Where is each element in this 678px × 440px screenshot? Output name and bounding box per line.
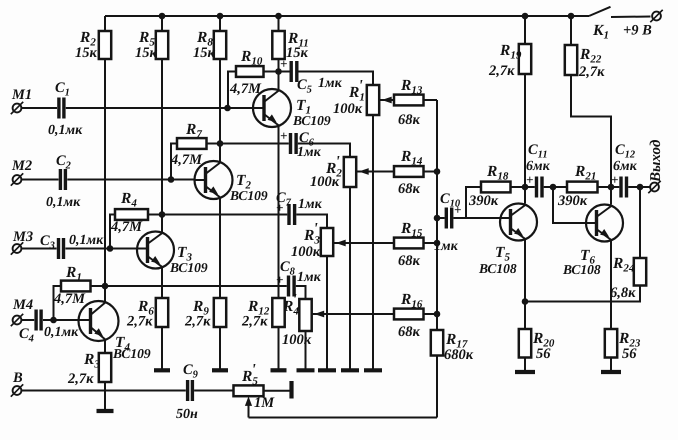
wire T3 collector to C7: [162, 214, 287, 216]
svg-text:68к: 68к: [398, 253, 421, 269]
wire T2 collector to C6: [220, 143, 289, 145]
label +9 В: [623, 23, 652, 39]
capacitor C12: [611, 172, 627, 198]
label R18 390к: [468, 163, 509, 209]
svg-text:68к: 68к: [398, 112, 421, 128]
node bus-C10: [434, 215, 441, 222]
label C10: [434, 191, 461, 254]
label C11: [526, 142, 551, 174]
capacitor C6: [280, 128, 296, 154]
node rail-R5: [159, 13, 166, 20]
label R5 15к: [135, 29, 158, 61]
label C1 value: [48, 123, 83, 138]
ground R12: [271, 368, 287, 372]
svg-text:68к: 68к: [398, 181, 421, 197]
resistor R7: [171, 138, 220, 179]
wire C1 to T1 base: [66, 107, 254, 109]
label R2 15к: [75, 29, 98, 61]
wire C6 to R2': [298, 144, 350, 158]
label R14 68к: [398, 148, 423, 197]
label R8 15к: [193, 29, 216, 61]
svg-text:+: +: [526, 172, 533, 187]
terminal +9V: [650, 10, 662, 22]
node T3 collector: [159, 211, 166, 218]
svg-text:100к: 100к: [291, 244, 321, 260]
label R11 15к: [286, 30, 309, 61]
wire to T6 base: [553, 187, 587, 223]
resistor R21: [567, 182, 619, 193]
ground R20: [515, 370, 535, 374]
svg-text:100к: 100к: [282, 332, 312, 348]
wire M1 to C1: [22, 107, 58, 109]
svg-text:68к: 68к: [398, 324, 421, 340]
svg-text:R4: R4: [120, 190, 137, 210]
wire C8 to R4': [296, 286, 306, 299]
svg-text:+: +: [280, 56, 287, 71]
svg-text:2,7к: 2,7к: [184, 314, 211, 330]
wire bottom return: [249, 417, 438, 419]
svg-text:R10: R10: [240, 48, 263, 68]
label T4: [112, 334, 151, 361]
resistor R3: [99, 353, 111, 410]
svg-text:1мк: 1мк: [297, 145, 322, 160]
transistor T1: [252, 72, 291, 299]
label R3' 100к: [291, 221, 321, 261]
wire C5 to R1': [299, 72, 374, 86]
svg-text:15к: 15к: [286, 45, 309, 61]
resistor R1: [54, 281, 106, 320]
svg-text:С4: С4: [19, 326, 34, 345]
svg-text:ВС109: ВС109: [169, 260, 208, 275]
svg-text:R1: R1: [65, 264, 82, 284]
wire bus to C10: [437, 217, 445, 219]
svg-text:R1': R1': [348, 78, 365, 104]
label C1: [55, 80, 70, 99]
label M4: [12, 297, 33, 313]
node bus-R15: [434, 240, 441, 247]
svg-text:15к: 15к: [135, 45, 158, 61]
label R9 2,7к: [184, 298, 211, 330]
potentiometer R1': [367, 85, 379, 369]
label R16 68к: [398, 291, 423, 340]
label R1' 100к: [333, 78, 365, 118]
capacitor C5: [280, 56, 297, 82]
label R1 4,7М: [53, 264, 86, 307]
node R1-base junction: [50, 317, 57, 324]
node bus-R14: [434, 168, 441, 175]
transistor T6: [585, 187, 623, 329]
label R17 680к: [444, 331, 474, 363]
end contact bar: [289, 381, 293, 399]
svg-text:390к: 390к: [557, 193, 588, 209]
svg-text:R5': R5': [241, 362, 258, 388]
node T4 collector: [102, 283, 109, 290]
label R19 2,7к: [488, 42, 522, 79]
label R24 6,8к: [610, 255, 636, 301]
svg-text:С11: С11: [528, 142, 548, 161]
svg-text:56: 56: [536, 346, 551, 362]
label C3 value: [69, 233, 104, 248]
label R12 2,7к: [241, 298, 270, 330]
svg-text:R13: R13: [400, 77, 423, 97]
svg-text:R18: R18: [486, 163, 509, 183]
svg-text:15к: 15к: [75, 45, 98, 61]
svg-text:М1: М1: [11, 87, 32, 103]
ground R3': [318, 368, 336, 372]
svg-text:С1: С1: [55, 80, 70, 99]
svg-text:Выход: Выход: [648, 139, 664, 183]
svg-text:ВС109: ВС109: [292, 113, 331, 128]
label R4' 100к: [282, 292, 312, 349]
wire C10 to T5 base: [453, 217, 501, 219]
node T6 base junction: [550, 184, 557, 191]
resistor R22: [565, 16, 611, 187]
svg-text:К1: К1: [592, 22, 609, 42]
ground R9: [212, 368, 228, 372]
capacitor C4: [36, 310, 41, 331]
resistor R4: [110, 209, 162, 248]
node R24 top: [637, 184, 644, 191]
svg-text:56: 56: [622, 346, 637, 362]
svg-text:ВС108: ВС108: [478, 261, 517, 276]
wire C2 to T2 base: [67, 179, 195, 181]
switch K1 blade: [589, 7, 611, 16]
node T5 emitter feedback: [522, 298, 529, 305]
resistor R12: [272, 298, 284, 369]
label C6: [297, 130, 322, 160]
svg-text:2,7к: 2,7к: [488, 63, 515, 79]
capacitor C1: [59, 98, 64, 119]
potentiometer R5': [234, 385, 264, 417]
svg-text:6мк: 6мк: [613, 159, 638, 174]
node R10-base junction: [224, 105, 231, 112]
svg-text:1М: 1М: [254, 395, 275, 411]
svg-text:15к: 15к: [193, 45, 216, 61]
svg-text:2,7к: 2,7к: [241, 314, 268, 330]
transistor T2: [194, 144, 233, 299]
svg-text:1мк: 1мк: [434, 239, 459, 254]
wire C3 to T3 base: [65, 248, 138, 250]
svg-text:ВС109: ВС109: [229, 188, 268, 203]
label R21 390к: [557, 163, 596, 209]
label C4 value: [44, 325, 79, 340]
svg-text:100к: 100к: [333, 101, 363, 117]
terminal B: [11, 384, 23, 396]
resistor R2: [99, 16, 111, 286]
label R22 2,7к: [578, 46, 605, 80]
label R6 2,7к: [126, 298, 154, 330]
label C8: [280, 259, 322, 285]
resistor R16: [311, 309, 437, 320]
potentiometer R2': [344, 157, 356, 369]
label Vyhod: [648, 139, 664, 183]
svg-text:50н: 50н: [176, 407, 198, 422]
svg-text:С8: С8: [280, 259, 296, 278]
resistor R23: [605, 329, 617, 370]
svg-text:R3': R3': [303, 221, 320, 247]
node rail-R22: [568, 13, 575, 20]
resistor R13: [379, 95, 438, 106]
svg-text:0,1мк: 0,1мк: [44, 325, 79, 340]
ground R23: [601, 370, 621, 374]
label C4: [19, 326, 34, 345]
label R13 68к: [398, 77, 423, 128]
svg-text:1мк: 1мк: [298, 197, 323, 212]
svg-text:М3: М3: [12, 229, 33, 245]
label R2' 100к: [310, 154, 342, 191]
ground R6: [154, 368, 170, 372]
resistor R19: [519, 16, 531, 204]
node rail-R11: [275, 13, 282, 20]
label T3: [169, 244, 208, 275]
terminal output: [648, 181, 660, 193]
svg-text:4,7М: 4,7М: [53, 291, 86, 307]
terminal M4: [11, 314, 23, 326]
wire B to C9: [22, 390, 186, 392]
svg-text:1мк: 1мк: [318, 76, 343, 91]
node bus-R16: [434, 311, 441, 318]
node rail-R8: [217, 13, 224, 20]
label R7 4,7М: [170, 121, 203, 168]
resistor R11: [272, 16, 284, 72]
wire M4 to C4: [22, 319, 35, 321]
label R3 2,7к: [67, 351, 100, 387]
svg-text:6мк: 6мк: [526, 159, 551, 174]
resistor R6: [156, 298, 168, 369]
wire M3 to C3: [22, 248, 57, 250]
svg-text:6,8к: 6,8к: [610, 285, 636, 301]
transistor T5: [499, 204, 537, 330]
node R7-base junction: [168, 176, 175, 183]
wire C4 to T4 base: [43, 319, 80, 321]
terminal M3: [11, 242, 23, 254]
svg-text:R24: R24: [612, 255, 635, 275]
label M3: [12, 229, 33, 245]
node T5 collector: [522, 184, 529, 191]
svg-text:R14: R14: [400, 148, 423, 168]
svg-text:680к: 680к: [444, 347, 474, 363]
label R10 4,7М: [229, 48, 263, 97]
svg-text:2,7к: 2,7к: [578, 64, 605, 80]
label C9: [176, 362, 199, 422]
capacitor C9: [188, 380, 193, 401]
resistor R24: [525, 187, 646, 302]
capacitor C3: [59, 238, 64, 259]
terminal M2: [11, 173, 23, 185]
resistor R15: [333, 238, 438, 249]
transistor T3: [136, 215, 174, 299]
transistor T4: [78, 286, 119, 353]
svg-text:М2: М2: [11, 158, 32, 174]
svg-text:0,1мк: 0,1мк: [48, 123, 83, 138]
resistor R9: [214, 298, 226, 369]
resistor R5: [156, 16, 168, 215]
label R5' 1М: [241, 362, 275, 412]
resistor R14: [356, 166, 438, 177]
svg-text:R22: R22: [579, 46, 602, 66]
svg-text:В: В: [12, 370, 23, 386]
capacitor C7: [276, 200, 295, 225]
label K1: [592, 22, 609, 42]
label C12: [613, 142, 638, 174]
label C3: [40, 233, 55, 252]
resistor R8: [214, 16, 226, 144]
wire +9V top rail: [105, 15, 589, 17]
label T1: [292, 97, 331, 128]
svg-text:R15: R15: [400, 220, 423, 240]
capacitor C11: [526, 172, 542, 198]
label C5: [297, 76, 343, 96]
wire C12 to output: [628, 186, 650, 188]
svg-text:ВС108: ВС108: [562, 262, 601, 277]
terminal M1: [11, 102, 23, 114]
svg-text:+: +: [611, 172, 618, 187]
node T1 collector: [275, 68, 282, 75]
svg-text:2,7к: 2,7к: [67, 371, 94, 387]
ground R2': [341, 368, 359, 372]
svg-text:4,7М: 4,7М: [110, 219, 143, 235]
resistor R20: [519, 329, 531, 370]
ground R4': [297, 368, 315, 372]
capacitor C10: [446, 202, 461, 229]
svg-text:2,7к: 2,7к: [126, 314, 153, 330]
svg-text:С10: С10: [440, 191, 461, 210]
svg-text:С9: С9: [183, 362, 199, 381]
capacitor C2: [60, 169, 65, 190]
wire R5' to end bar: [264, 390, 291, 392]
label C2: [56, 153, 72, 172]
wire K1 to +9V terminal: [611, 16, 651, 19]
label C7: [276, 190, 323, 212]
svg-text:R16: R16: [400, 291, 423, 311]
svg-text:4,7М: 4,7М: [170, 152, 203, 168]
svg-text:М4: М4: [12, 297, 33, 313]
wire C11 to R21: [544, 186, 567, 188]
label T6: [562, 247, 601, 277]
svg-text:С5: С5: [297, 77, 312, 96]
svg-text:0,1мк: 0,1мк: [46, 195, 81, 210]
label C2 value: [46, 195, 81, 210]
svg-text:390к: 390к: [468, 193, 499, 209]
wire M2 to C2: [22, 179, 59, 181]
svg-text:R7: R7: [185, 121, 202, 141]
node R4-base junction: [107, 245, 114, 252]
svg-text:0,1мк: 0,1мк: [69, 233, 104, 248]
label T2: [229, 172, 268, 203]
wire C9 to R5': [194, 390, 233, 392]
wire summing bus: [436, 100, 438, 330]
label R15 68к: [398, 220, 423, 269]
resistor R17: [431, 330, 443, 418]
ground R3: [97, 409, 114, 413]
label R4 4,7М: [110, 190, 143, 235]
resistor R18: [466, 182, 525, 218]
label T5: [478, 244, 517, 276]
node T2 collector: [217, 140, 224, 147]
wire C7 to R3': [296, 215, 327, 229]
svg-text:+9 В: +9 В: [623, 23, 652, 39]
svg-text:R21: R21: [574, 163, 596, 183]
svg-text:С3: С3: [40, 233, 55, 252]
svg-text:С2: С2: [56, 153, 72, 172]
label R23 56: [618, 330, 641, 362]
wire T1 collector to C5: [279, 71, 290, 73]
wire T5c to C11: [525, 186, 535, 188]
potentiometer R3': [321, 228, 333, 369]
potentiometer R4': [299, 299, 311, 369]
capacitor C8: [276, 272, 294, 297]
svg-text:С12: С12: [615, 142, 636, 161]
wire T4 collector to C8: [105, 285, 287, 287]
label M2: [11, 158, 32, 174]
ground R1': [364, 368, 382, 372]
label M1: [11, 87, 32, 103]
svg-text:ВС109: ВС109: [112, 346, 151, 361]
svg-text:100к: 100к: [310, 174, 340, 190]
resistor R10: [228, 66, 279, 108]
label R20 56: [532, 330, 555, 362]
label B: [12, 370, 23, 386]
node rail-R19: [522, 13, 529, 20]
node T6 collector: [608, 184, 615, 191]
svg-text:1мк: 1мк: [297, 270, 322, 285]
svg-text:+: +: [280, 128, 287, 143]
svg-text:С7: С7: [276, 190, 292, 209]
